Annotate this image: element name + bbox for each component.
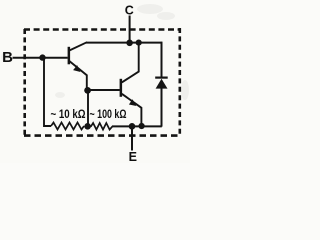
svg-text:C: C bbox=[125, 4, 134, 18]
svg-text:~ 100 kΩ: ~ 100 kΩ bbox=[90, 109, 127, 121]
svg-text:~ 10 kΩ: ~ 10 kΩ bbox=[51, 109, 86, 121]
svg-text:B: B bbox=[2, 49, 13, 66]
svg-text:E: E bbox=[129, 150, 137, 163]
